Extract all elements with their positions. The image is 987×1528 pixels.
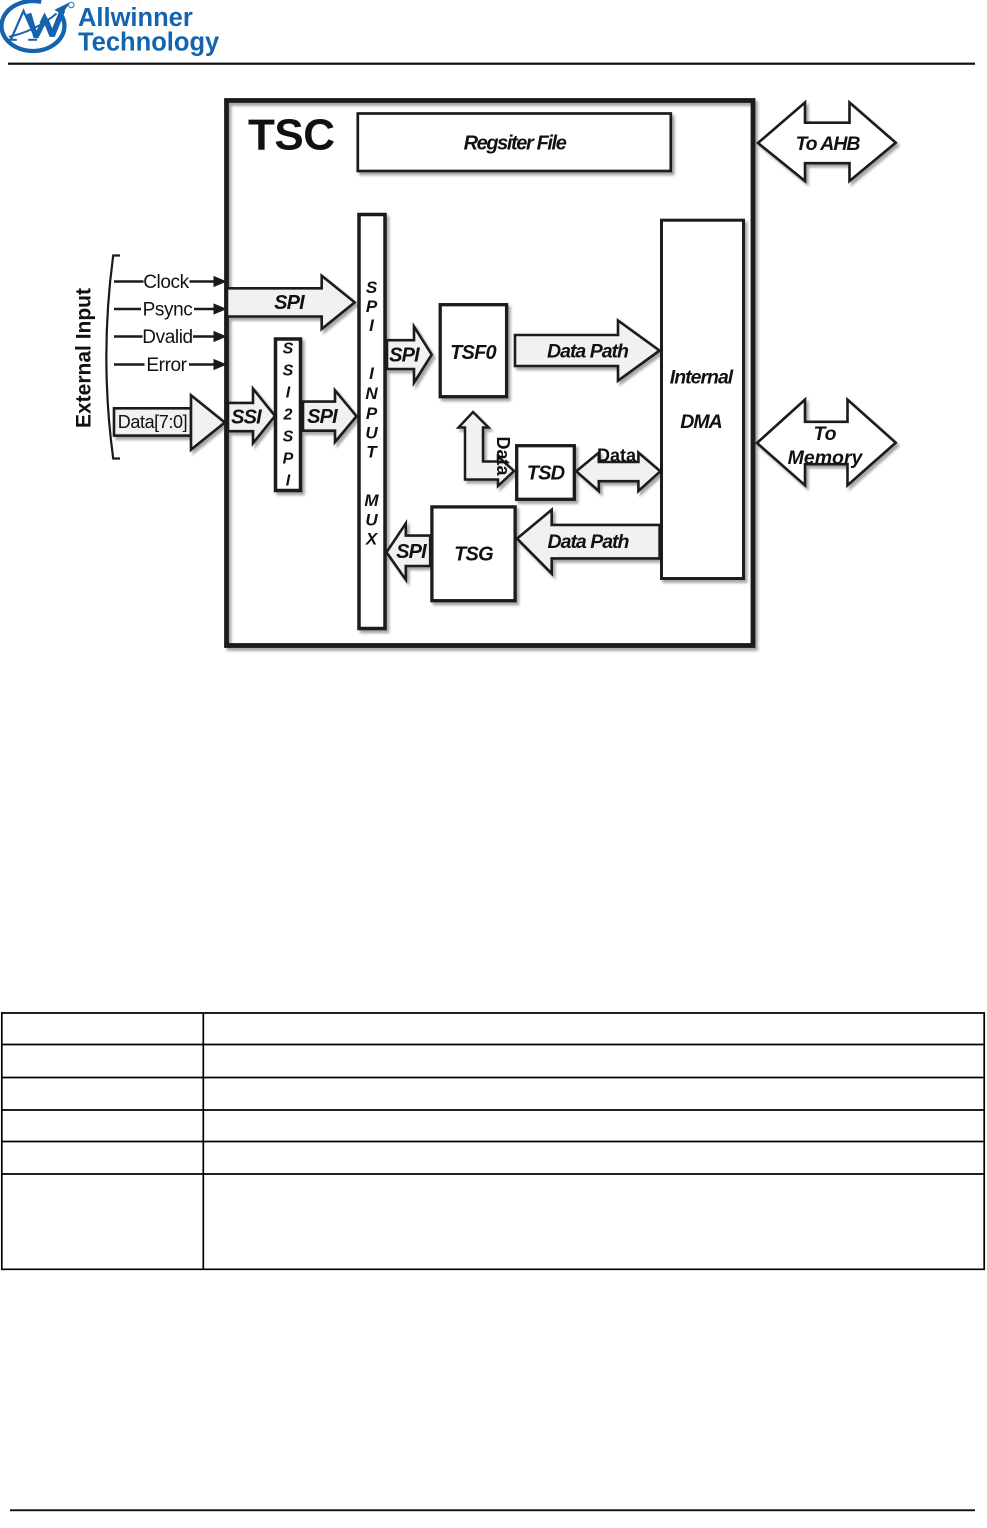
svg-text:Dvalid: Dvalid xyxy=(142,327,192,348)
svg-text:Data Path: Data Path xyxy=(547,341,629,363)
svg-text:External Input: External Input xyxy=(73,288,96,428)
svg-text:SPI: SPI xyxy=(396,541,427,563)
svg-text:Data[7:0]: Data[7:0] xyxy=(118,412,187,432)
svg-text:2: 2 xyxy=(283,407,293,424)
svg-text:S: S xyxy=(366,278,378,297)
svg-text:M: M xyxy=(364,491,379,510)
svg-text:Technology: Technology xyxy=(78,29,220,57)
svg-text:SPI: SPI xyxy=(274,292,305,314)
svg-text:N: N xyxy=(365,384,378,403)
svg-text:X: X xyxy=(365,530,379,549)
svg-text:S: S xyxy=(283,341,294,358)
svg-text:S: S xyxy=(283,363,294,380)
svg-text:SPI: SPI xyxy=(307,406,338,428)
svg-text:Error: Error xyxy=(146,355,187,376)
svg-text:Psync: Psync xyxy=(143,300,193,321)
svg-text:To AHB: To AHB xyxy=(795,133,860,155)
svg-text:Data: Data xyxy=(493,436,513,476)
svg-text:Clock: Clock xyxy=(143,272,189,293)
svg-text:U: U xyxy=(365,511,378,530)
svg-text:TSF0: TSF0 xyxy=(450,342,496,364)
svg-text:SPI: SPI xyxy=(389,345,420,367)
svg-text:TSC: TSC xyxy=(248,111,335,160)
svg-text:P: P xyxy=(366,297,378,316)
svg-text:Memory: Memory xyxy=(788,447,864,469)
svg-text:Data Path: Data Path xyxy=(548,531,630,553)
svg-text:P: P xyxy=(366,404,378,423)
svg-text:T: T xyxy=(366,443,378,462)
svg-text:Data: Data xyxy=(597,446,637,466)
svg-text:I: I xyxy=(286,473,291,490)
svg-text:S: S xyxy=(283,429,294,446)
svg-text:SSI: SSI xyxy=(231,407,262,429)
svg-text:P: P xyxy=(283,451,294,468)
svg-text:I: I xyxy=(286,385,291,402)
svg-text:Internal: Internal xyxy=(670,367,734,389)
svg-text:TSG: TSG xyxy=(454,544,493,566)
svg-text:To: To xyxy=(813,423,836,445)
svg-text:TSD: TSD xyxy=(527,463,565,485)
svg-text:DMA: DMA xyxy=(680,411,721,433)
svg-text:U: U xyxy=(365,424,378,443)
svg-text:Regsiter File: Regsiter File xyxy=(464,133,567,155)
